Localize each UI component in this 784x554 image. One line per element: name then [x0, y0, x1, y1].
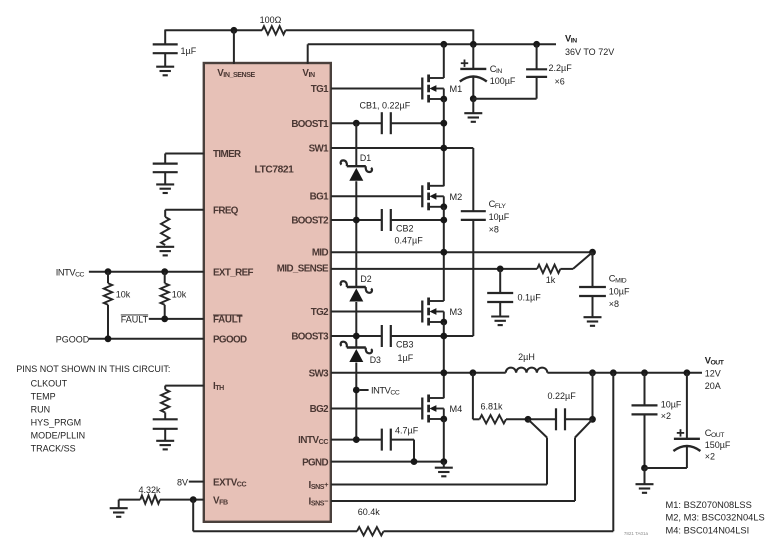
label CB1 0.22uF: [360, 101, 411, 111]
wire SW3 sense drop: [473, 373, 480, 420]
node junction 0.22uF top: [589, 369, 596, 376]
svg-text:0.47µF: 0.47µF: [395, 236, 424, 246]
capacitor 0.22uF (sense): [556, 408, 565, 430]
wire TG2 row: [331, 311, 422, 313]
svg-text:1µF: 1µF: [398, 353, 414, 363]
wire CIN ground stub: [472, 99, 474, 113]
node junction SW3 sense tap: [470, 369, 477, 376]
wire BOOST2 row left: [331, 219, 382, 221]
svg-text:TG1: TG1: [311, 84, 329, 95]
svg-text:SW3: SW3: [309, 369, 330, 380]
wire VIN rail: [308, 43, 556, 45]
svg-text:CB2: CB2: [396, 224, 414, 234]
wire ITH row: [165, 385, 204, 387]
resistor 1k (MID_SENSE): [537, 265, 560, 273]
node junction MID at CMID: [589, 249, 596, 256]
svg-text:FAULT: FAULT: [213, 315, 243, 326]
svg-text:M2: M2: [450, 192, 463, 202]
wire top rail right segment (100ohm to VIN column): [286, 30, 474, 45]
wire bottom run right and riser to VOUT: [384, 373, 614, 532]
pin label ISNS-: [309, 496, 330, 507]
wire BOOST2 row right: [391, 219, 444, 221]
net label PGOOD: [56, 334, 90, 344]
svg-text:MODE/PLLIN: MODE/PLLIN: [31, 430, 86, 440]
svg-text:0.22µF: 0.22µF: [548, 391, 577, 401]
svg-text:×2: ×2: [705, 452, 715, 462]
svg-text:×8: ×8: [489, 225, 499, 235]
node junction diode string at INTVCC row: [353, 436, 360, 443]
wire TIMER row: [165, 153, 204, 155]
note pin TRACK/SS: [31, 443, 76, 453]
svg-text:2µH: 2µH: [518, 352, 535, 362]
svg-text:20A: 20A: [705, 381, 721, 391]
resistor (FREQ set): [161, 210, 169, 245]
net label INTVCC (diode string): [371, 386, 400, 397]
pin label TG1: [311, 84, 329, 95]
svg-text:×6: ×6: [555, 77, 565, 87]
node junction PGND at stack column: [440, 458, 447, 465]
capacitor CB2 0.47uF: [382, 209, 391, 231]
ground (TIMER cap): [156, 184, 174, 193]
pin label VIN_SENSE: [217, 68, 255, 79]
label 0.1uF: [518, 292, 542, 302]
svg-text:100µF: 100µF: [490, 76, 516, 86]
pin label MID_SENSE: [277, 264, 329, 275]
label CB2 0.47uF: [395, 224, 424, 246]
wire MID row: [331, 251, 593, 253]
wire output ground stub: [644, 468, 646, 484]
node junction M1 drain at VIN rail: [440, 41, 447, 48]
wire M1 source to M2 drain: [443, 99, 445, 186]
svg-text:BOOST2: BOOST2: [291, 216, 329, 227]
label 0.22uF sense: [548, 391, 577, 401]
svg-text:M4: M4: [450, 404, 463, 414]
plus polarity mark for COUT: [677, 429, 684, 436]
pin label BOOST2: [291, 216, 329, 227]
svg-text:CB3: CB3: [396, 340, 414, 350]
svg-text:FREQ: FREQ: [213, 206, 239, 217]
label CFLY 10uF x8: [489, 199, 510, 235]
node junction D1 anode at BOOST1: [353, 120, 360, 127]
wire D1 to D2: [355, 181, 357, 287]
pin label EXTVCC: [213, 477, 246, 488]
wire D2 to D3: [355, 302, 357, 348]
svg-text:×2: ×2: [661, 411, 671, 421]
svg-text:CB1, 0.22µF: CB1, 0.22µF: [360, 101, 411, 111]
node junction 4.7uF return: [411, 458, 418, 465]
node junction M2 source: [440, 203, 447, 210]
svg-text:RUN: RUN: [31, 405, 50, 415]
capacitor 1uF (VIN_SENSE filter): [153, 30, 178, 67]
wire FREQ row: [165, 209, 204, 211]
wire EXT_REF row: [89, 271, 204, 273]
capacitor (TIMER): [153, 154, 178, 185]
wire 1k to CMID diagonal: [560, 252, 592, 269]
note MOSFET part numbers: [666, 500, 765, 535]
label 100ohm value: [260, 15, 282, 25]
wire M1 drain riser: [443, 44, 445, 78]
pin label EXT_REF: [213, 267, 254, 278]
ground (CIN): [464, 113, 482, 122]
wire BOOST1 row left: [331, 122, 382, 124]
pin label INTVCC (pin): [298, 435, 328, 446]
node junction BOOST3 at stack column: [440, 333, 447, 340]
wire ISNS- row: [331, 419, 593, 501]
diode D2 schottky: [341, 281, 372, 301]
pin label ITH: [213, 381, 224, 392]
svg-text:10k: 10k: [172, 290, 187, 300]
node junction COUT: [684, 369, 691, 376]
node junction PGOOD pull-up: [105, 335, 112, 342]
capacitor 4.7uF (INTVCC bypass): [382, 429, 391, 451]
wire ISNS+ row: [331, 419, 547, 484]
pin label TG2: [311, 307, 329, 318]
svg-text:60.4k: 60.4k: [358, 507, 381, 517]
node junction VIN_SENSE tap: [231, 27, 238, 34]
label 1k: [546, 275, 556, 285]
capacitor CIN 100uF polarized: [460, 69, 487, 99]
svg-text:PGND: PGND: [302, 457, 328, 468]
pin label FREQ: [213, 206, 239, 217]
resistor (ITH compensation): [161, 386, 169, 413]
resistor 60.4k (VFB divider top): [357, 527, 384, 535]
svg-text:10µF: 10µF: [661, 400, 682, 410]
svg-text:FAULT: FAULT: [121, 315, 149, 325]
ground (output): [636, 484, 654, 493]
ground (CMID): [584, 317, 602, 326]
svg-text:PGOOD: PGOOD: [56, 334, 90, 344]
pin label PGND: [302, 457, 328, 468]
node junction M4 source: [440, 416, 447, 423]
capacitor 10uF x2 output ceramic: [632, 373, 658, 468]
wire CIN top: [472, 44, 474, 69]
capacitor CMID 10uF x8: [579, 252, 606, 317]
label D3: [370, 355, 381, 365]
wire BOOST1 row right: [391, 122, 444, 124]
pin label VFB: [213, 495, 228, 506]
transistor M2 BSC032N04LS: [422, 182, 462, 210]
label 1uF: [181, 46, 197, 56]
wire BG1 row: [331, 195, 422, 197]
svg-text:MID: MID: [312, 248, 329, 259]
svg-text:BG2: BG2: [310, 404, 329, 415]
net label VIN with range: [565, 34, 614, 58]
diode D1 schottky: [341, 160, 372, 180]
wire MID_SENSE row: [331, 268, 537, 270]
svg-text:D3: D3: [370, 355, 381, 365]
label 4.32k: [139, 485, 162, 495]
resistor 10k (PGOOD pull-up): [104, 272, 112, 339]
wire PGND row: [331, 461, 444, 463]
wire BOOST3 row right: [391, 335, 474, 337]
wire INTVCC pin row: [331, 439, 382, 441]
svg-text:150µF: 150µF: [705, 440, 731, 450]
label 10k right: [172, 290, 187, 300]
label CB3 1uF: [396, 340, 414, 364]
svg-text:M2, M3: BSC032N04LS: M2, M3: BSC032N04LS: [666, 513, 765, 523]
net label 8V at EXTVCC: [177, 477, 188, 487]
label CMID 10uF x8: [609, 274, 630, 310]
label 4.7uF: [395, 426, 419, 436]
svg-text:8V: 8V: [177, 477, 188, 487]
svg-text:100Ω: 100Ω: [260, 15, 282, 25]
label 10uF x2: [661, 400, 682, 422]
wire M3 source to M4 drain: [443, 322, 445, 398]
svg-text:1k: 1k: [546, 275, 556, 285]
svg-text:D2: D2: [360, 274, 371, 284]
node junction 10k pull-up right: [161, 268, 168, 275]
node junction SW1 at M1 column: [440, 145, 447, 152]
pin label SW3: [309, 369, 330, 380]
capacitor CFLY 10uF x8 flying: [461, 211, 486, 336]
transistor M1 BSZ070N08LSS: [422, 75, 462, 103]
wire VFB drop and bottom run left: [193, 500, 357, 532]
pin label ISNS+: [309, 480, 330, 491]
resistor 6.81k: [480, 415, 507, 423]
svg-text:10k: 10k: [116, 290, 131, 300]
label 10k left: [116, 290, 131, 300]
svg-text:4.7µF: 4.7µF: [395, 426, 419, 436]
svg-text:10µF: 10µF: [489, 212, 510, 222]
svg-text:36V TO 72V: 36V TO 72V: [565, 47, 614, 57]
svg-text:TEMP: TEMP: [31, 392, 56, 402]
svg-text:PINS NOT SHOWN IN THIS CIRCUIT: PINS NOT SHOWN IN THIS CIRCUIT:: [16, 364, 170, 374]
node junction BOOST1 at M1 column: [440, 120, 447, 127]
wire SW1 row: [331, 148, 473, 211]
capacitor CB3 1uF: [382, 325, 391, 347]
node junction CIN at VIN rail: [470, 41, 477, 48]
svg-text:7821 TA01a: 7821 TA01a: [624, 531, 649, 536]
label 6.81k: [481, 402, 504, 412]
node junction VFB: [190, 496, 197, 503]
svg-text:CLKOUT: CLKOUT: [31, 379, 68, 389]
label COUT 150uF x2: [705, 428, 731, 462]
node junction output ground: [641, 465, 648, 472]
wire VOUT row right of inductor: [547, 372, 702, 374]
svg-text:×8: ×8: [609, 299, 619, 309]
wire PGOOD row: [89, 338, 204, 340]
capacitor COUT 150uF x2 polarized: [645, 373, 701, 468]
transistor M3 BSC032N04LS: [422, 298, 462, 326]
wire FAULT row: [149, 318, 204, 320]
wire VIN_SENSE pin drop: [233, 30, 235, 64]
ground (PGND): [435, 468, 453, 477]
pin label BG1: [310, 192, 329, 203]
svg-text:2.2µF: 2.2µF: [549, 63, 573, 73]
node junction ISNS+ tap: [525, 416, 532, 423]
watermark 7821 TA01a: [624, 531, 649, 536]
resistor 10k (FAULT pull-up): [161, 272, 169, 319]
svg-text:BOOST1: BOOST1: [291, 119, 329, 130]
pin label FAULT (active low): [213, 315, 243, 326]
wire TG1 row: [331, 88, 422, 90]
wire 4.32k ground side: [119, 500, 141, 508]
svg-text:D1: D1: [360, 153, 371, 163]
wire EXTVCC stub: [189, 481, 204, 483]
label D2: [360, 274, 371, 284]
svg-text:MID_SENSE: MID_SENSE: [277, 264, 329, 275]
node junction D2 cathode string at BOOST2: [353, 217, 360, 224]
pin label MID: [312, 248, 329, 259]
node junction M3 source: [440, 319, 447, 326]
node junction 0.1uF tap: [497, 266, 504, 273]
wire VIN pin riser: [307, 44, 309, 64]
capacitor 0.1uF (MID_SENSE filter): [487, 269, 513, 316]
svg-text:M3: M3: [450, 307, 463, 317]
ground (0.1uF): [491, 317, 509, 326]
node junction feedback tap: [610, 369, 617, 376]
node junction ISNS- tap: [589, 416, 596, 423]
label 60.4k: [358, 507, 381, 517]
ground (ITH network): [156, 441, 174, 450]
transistor M4 BSC014N04LSI: [422, 395, 462, 423]
capacitor 2.2uF x6 ceramic input: [473, 44, 547, 98]
node junction MID at stack column: [440, 249, 447, 256]
ground (FREQ resistor): [156, 247, 174, 256]
pin label PGOOD: [213, 334, 247, 345]
node junction 2.2uF at VIN rail: [533, 41, 540, 48]
svg-text:M1: BSZ070N08LSS: M1: BSZ070N08LSS: [666, 500, 752, 510]
svg-text:EXT_REF: EXT_REF: [213, 267, 254, 278]
note pin RUN: [31, 405, 50, 415]
pin label BOOST3: [291, 332, 329, 343]
node junction BOOST2 at stack column: [440, 217, 447, 224]
pin label BOOST1: [291, 119, 329, 130]
node junction INTVCC net stub on diode string: [353, 387, 360, 394]
pin label VIN: [302, 68, 315, 79]
node junction CIN bottom: [470, 95, 477, 102]
wire top rail left segment (1uF to 100ohm): [165, 29, 262, 31]
svg-text:PGOOD: PGOOD: [213, 334, 247, 345]
label D1: [360, 153, 371, 163]
wire BG2 row: [331, 408, 422, 410]
net label FAULT (active low): [121, 315, 149, 325]
diode D3 schottky: [341, 342, 372, 362]
wire M2 source to M3 drain: [443, 207, 445, 301]
node junction M1 source: [440, 96, 447, 103]
pin label TIMER: [213, 149, 241, 160]
label 2uH: [518, 352, 535, 362]
inductor 2uH: [506, 368, 548, 373]
node junction FAULT pull-up: [161, 316, 168, 323]
U1 part number label LTC7821: [255, 165, 295, 176]
net label INTVCC (EXT_REF pull-up): [56, 267, 85, 278]
resistor 100ohm: [262, 26, 286, 34]
svg-text:SW1: SW1: [309, 144, 330, 155]
wire 0.22uF to VOUT riser: [565, 373, 593, 420]
pin label BG2: [310, 404, 329, 415]
note pin CLKOUT: [31, 379, 68, 389]
svg-text:BOOST3: BOOST3: [291, 332, 329, 343]
svg-text:TIMER: TIMER: [213, 149, 241, 160]
svg-text:M1: M1: [450, 84, 463, 94]
svg-text:TRACK/SS: TRACK/SS: [31, 443, 76, 453]
svg-text:10µF: 10µF: [609, 287, 630, 297]
svg-text:HYS_PRGM: HYS_PRGM: [31, 418, 82, 428]
wire 4.7uF to PGND row: [391, 440, 414, 462]
svg-text:BG1: BG1: [310, 192, 329, 203]
wire PGND ground stub: [443, 462, 445, 468]
svg-text:LTC7821: LTC7821: [255, 165, 295, 176]
label CIN 100uF: [490, 64, 516, 86]
wire INTVCC net stub: [360, 389, 369, 391]
wire 4.32k to VFB pin: [160, 499, 204, 501]
pin label SW1: [309, 144, 330, 155]
capacitor (ITH compensation): [153, 413, 178, 441]
note pin HYS_PRGM: [31, 418, 82, 428]
wire SW3/VOUT row: [331, 372, 506, 374]
svg-text:1µF: 1µF: [181, 46, 197, 56]
wire BOOST3 row left: [331, 335, 382, 337]
wire D1 string top: [355, 123, 357, 166]
IC U1 LTC7821 hybrid step-down controller body: [204, 63, 331, 522]
svg-text:TG2: TG2: [311, 307, 329, 318]
node junction 10k pull-up left: [105, 268, 112, 275]
plus polarity mark for CIN: [461, 60, 468, 67]
wire M4 source to PGND: [443, 419, 445, 462]
svg-text:6.81k: 6.81k: [481, 402, 504, 412]
svg-text:12V: 12V: [705, 369, 721, 379]
label 2.2uF x6: [549, 63, 573, 87]
wire 6.81k to 0.22uF: [506, 418, 556, 420]
node junction D3 at BOOST3: [353, 333, 360, 340]
note PINS NOT SHOWN heading: [16, 364, 170, 374]
ground (1uF filter): [156, 67, 174, 76]
resistor 4.32k (VFB divider low): [140, 495, 160, 503]
svg-text:0.1µF: 0.1µF: [518, 292, 542, 302]
note pin MODE/PLLIN: [31, 430, 86, 440]
ground (4.32k): [110, 508, 128, 517]
note pin TEMP: [31, 392, 56, 402]
node junction 10uF output: [641, 369, 648, 376]
node junction SW3 at stack column: [440, 369, 447, 376]
svg-text:M4: BSC014N04LSI: M4: BSC014N04LSI: [666, 525, 750, 535]
wire D3 to INTVCC rail: [355, 363, 357, 440]
net label VOUT 12V 20A: [705, 356, 725, 392]
capacitor CB1 0.22uF: [382, 112, 391, 134]
